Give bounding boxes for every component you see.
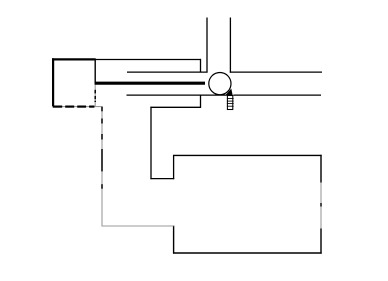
screw tip [225,89,233,96]
wire: upper outer wall [95,59,201,61]
valve ball [209,73,231,95]
wire: step vertical x=151 [150,107,152,180]
screw body [227,96,232,110]
body block left edge [52,58,54,106]
piston rod (thick) [95,82,205,85]
center line horizontal [102,225,174,227]
lower block top edge [173,154,322,156]
body block right edge (solid upper part) [94,59,96,85]
wire: upper inner wall [127,71,208,73]
wire: right port wall vertical [229,18,231,73]
wire: step vertical x=173 [173,155,175,179]
body block top edge [52,58,96,60]
wire: right upper wall [230,71,322,73]
wire: step vertical below valve [200,95,202,107]
wire: lower wall right of screw [233,94,321,96]
wire: left port wall vertical [206,18,208,73]
wire: lower wall left of screw [127,94,227,96]
wire: step horizontal y=178 [150,178,174,180]
lower block left lower edge [173,226,175,254]
body block bottom edge (dashed) [52,106,103,108]
wire: step down at wall end [200,59,202,72]
wire: step horizontal y=107 [150,106,201,108]
body block right edge (hidden dashed lower part) [94,85,96,107]
center line vertical (dash-dot) [101,107,103,227]
lower block bottom edge [173,252,322,254]
lower block right edge (phantom) [320,155,322,254]
screw threads [227,99,234,107]
